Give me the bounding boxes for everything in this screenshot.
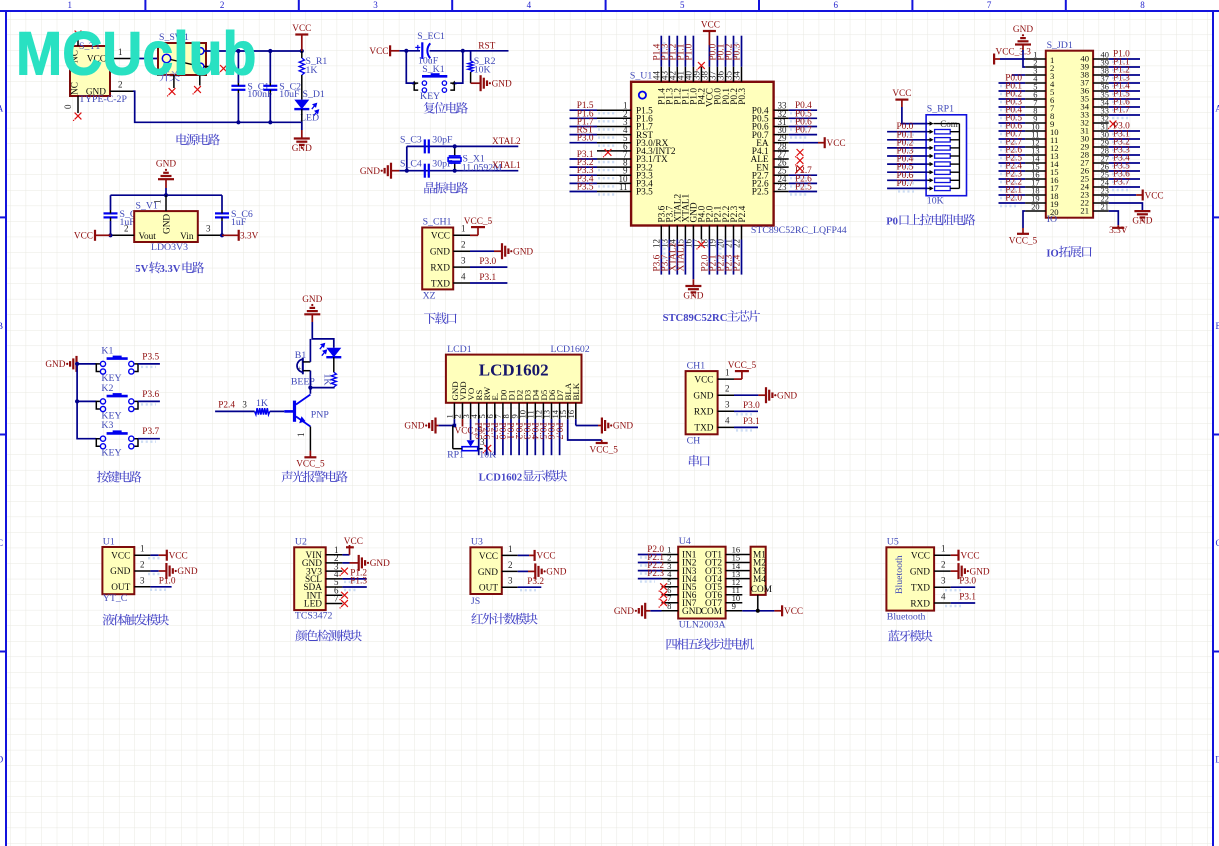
svg-text:K2: K2 — [101, 383, 113, 394]
title IO拓展口 — [1046, 246, 1091, 260]
wire P1.0 — [150, 586, 171, 588]
svg-text:P2.5: P2.5 — [752, 188, 769, 198]
no-ERC pin 17 — [696, 241, 705, 249]
svg-text:VCC: VCC — [111, 551, 130, 561]
wire P2.0 (U4) — [638, 554, 662, 556]
svg-text:3.3V: 3.3V — [160, 264, 181, 275]
svg-text:LCD1602: LCD1602 — [551, 344, 590, 355]
svg-text:COM: COM — [701, 607, 722, 617]
svg-text:VCC: VCC — [292, 24, 311, 34]
svg-text:3: 3 — [206, 224, 211, 234]
svg-text:3: 3 — [941, 576, 946, 586]
svg-text:VCC: VCC — [701, 21, 720, 31]
pin 3 RXD — [453, 255, 470, 267]
capacitor S_C6 1uF — [215, 209, 253, 228]
svg-text:P0.7: P0.7 — [795, 126, 812, 136]
pin 3 TXD (U5) — [934, 576, 951, 588]
svg-text:M4: M4 — [753, 575, 766, 585]
LCD pins — [454, 403, 575, 419]
svg-text:TCS3472: TCS3472 — [295, 611, 333, 622]
LED S_D1 — [294, 89, 325, 124]
wire VIN to VCC — [342, 554, 349, 556]
power port VCC (U4) — [774, 605, 803, 617]
power port VCC_3.3 (row1) — [994, 48, 1031, 65]
svg-text:3.3V: 3.3V — [1109, 226, 1128, 236]
svg-text:KEY: KEY — [101, 448, 121, 459]
pin 31 of S_U1 — [774, 126, 789, 128]
svg-text:10K: 10K — [474, 64, 491, 75]
svg-text:P3.0: P3.0 — [577, 134, 594, 144]
wire P3.4 — [1109, 162, 1140, 164]
bottom rail wire GND pin 2 net — [133, 91, 302, 130]
wire P2.2 — [999, 186, 1026, 188]
svg-text:1K: 1K — [322, 374, 333, 386]
power port VCC (chip top) — [701, 21, 720, 46]
svg-text:B1: B1 — [295, 350, 307, 361]
module U3 JS (IR counter) — [470, 537, 501, 608]
wire P3.0 (serial) — [734, 410, 758, 412]
wire P0.3 to S_RP1 — [887, 155, 928, 157]
svg-text:GND: GND — [613, 422, 633, 432]
svg-text:P3.1: P3.1 — [959, 592, 976, 602]
module U2 TCS3472 (color sensor) — [294, 537, 332, 622]
wire + power port VCC (U1) — [150, 550, 187, 562]
svg-text:GND: GND — [110, 567, 130, 577]
wire P0.0 (LCD) — [502, 419, 504, 455]
title 电源电路 — [177, 134, 220, 146]
svg-text:VCC_5: VCC_5 — [1009, 236, 1038, 246]
switch lower pins with no-ERC — [174, 75, 200, 88]
svg-text:3: 3 — [140, 575, 145, 585]
connector M1-M4 (stepper motor) — [751, 547, 772, 595]
svg-text:GND: GND — [302, 295, 322, 305]
wire — [789, 109, 817, 111]
wire S_C5 to VCC rail — [110, 221, 112, 235]
wire key K3 to P3.7 — [138, 438, 160, 440]
wire P0.4 — [999, 114, 1026, 116]
wire S_D1 to GND — [301, 109, 303, 130]
wire — [660, 240, 662, 275]
ground GND (U5) — [959, 563, 990, 579]
svg-text:1: 1 — [508, 544, 513, 554]
pin 18 of S_U1 — [708, 226, 710, 240]
wire — [684, 36, 686, 67]
wire — [733, 36, 735, 67]
wire P0.3 — [999, 106, 1026, 108]
no-ERC IN6 — [659, 591, 668, 600]
power port VCC (top of power circuit) — [292, 24, 311, 51]
power port VCC_5 (serial) — [728, 361, 757, 379]
wire pin22 to GND — [1109, 203, 1143, 210]
wire — [570, 142, 598, 144]
microcontroller S_U1 STC89C52RC_LQFP44 — [630, 71, 847, 237]
net VCC_5 on VDD pin — [455, 419, 484, 436]
svg-text:2: 2 — [220, 0, 225, 10]
svg-text:P1.7: P1.7 — [1113, 106, 1130, 116]
svg-text:COM: COM — [751, 585, 772, 595]
wire P1.0 — [1109, 58, 1140, 60]
svg-text:XTAL1: XTAL1 — [492, 161, 521, 171]
svg-text:S_C3: S_C3 — [400, 134, 422, 145]
svg-text:GND: GND — [683, 292, 703, 302]
wire key to RST node — [454, 51, 463, 83]
resistor pack S_RP1 10K — [926, 104, 966, 207]
wire P0.6 to S_RP1 — [887, 179, 928, 181]
svg-text:S_C4: S_C4 — [400, 159, 422, 170]
wire motor COM down — [757, 595, 759, 611]
wire — [789, 191, 817, 193]
wire P3.3 — [1109, 154, 1140, 156]
wire — [684, 240, 686, 275]
pin 11 of S_U1 — [597, 191, 631, 193]
driver U4 ULN2003A — [678, 536, 725, 631]
wire P0.1 — [999, 90, 1026, 92]
svg-text:U5: U5 — [887, 537, 899, 548]
wire — [733, 240, 735, 275]
svg-text:GND: GND — [777, 391, 797, 401]
svg-text:XZ: XZ — [423, 291, 436, 302]
svg-text:P3.7: P3.7 — [1113, 178, 1130, 188]
pin 14 of S_U1 — [676, 226, 678, 240]
pin 3 RXD (CH1) — [718, 400, 734, 412]
svg-text:STC89C52RC: STC89C52RC — [663, 313, 728, 324]
pin 1 VCC of S_T1 — [110, 47, 133, 59]
svg-text:8: 8 — [1140, 0, 1145, 10]
pin 22 of S_U1 — [741, 226, 743, 240]
svg-text:GND: GND — [360, 167, 380, 177]
capacitor S_C2 10uF — [263, 82, 301, 101]
pin 9 of S_U1 — [597, 174, 631, 176]
svg-text:Bluetooth: Bluetooth — [894, 555, 905, 594]
pin 13 of S_U1 — [668, 226, 670, 240]
module U5 Bluetooth — [886, 537, 934, 623]
svg-text:RST: RST — [478, 41, 495, 51]
S_JD1 inside pin numbers — [1050, 54, 1090, 218]
wire pin21 to 3.3V — [1109, 211, 1119, 225]
pin 4 RXD (U5) — [934, 591, 951, 603]
wire XTAL1 row — [399, 170, 518, 172]
U4 right pins — [726, 555, 751, 611]
wire cap to RST node — [430, 50, 509, 52]
svg-text:VCC_3.3: VCC_3.3 — [996, 48, 1032, 58]
pin 2 of S_U1 — [597, 117, 631, 119]
wire P2.4 to base resistor — [215, 410, 255, 412]
S_JD1 right pins — [1093, 59, 1109, 211]
wire — [789, 174, 817, 176]
wire P3.1 (U5) — [951, 602, 976, 604]
wire switch to VCC node — [204, 50, 302, 52]
svg-text:P3.0: P3.0 — [959, 577, 976, 587]
pin 8 of S_U1 — [597, 166, 631, 168]
wire P0.4 to S_RP1 — [887, 163, 928, 165]
svg-text:GND: GND — [492, 79, 512, 89]
svg-text:GND: GND — [163, 214, 173, 234]
wire P0.1 to S_RP1 — [887, 139, 928, 141]
transistor Q1 PNP — [295, 395, 330, 427]
svg-text:U1: U1 — [103, 536, 115, 547]
wire P2.3 (U4) — [638, 578, 662, 580]
wire P0.5 — [999, 122, 1026, 124]
svg-text:VCC: VCC — [537, 552, 556, 562]
wire P3.2 — [1109, 146, 1140, 148]
svg-text:YT_C: YT_C — [103, 593, 128, 604]
no-ERC IN7 — [659, 599, 668, 608]
svg-text:2: 2 — [725, 384, 730, 394]
title 复位电路 — [424, 102, 468, 114]
wire VCC node down to key — [406, 51, 414, 83]
svg-text:P3.5: P3.5 — [142, 352, 159, 362]
wire GND rail to pot — [439, 425, 455, 427]
pin 2 Vout of S_V1 — [111, 224, 135, 236]
wire — [716, 240, 718, 275]
pin 2 GND — [453, 240, 470, 252]
svg-text:GND: GND — [156, 160, 176, 170]
chip top pin names (rotated) — [658, 88, 748, 107]
wire rail down to S_C5 — [110, 195, 112, 210]
wire — [570, 174, 598, 176]
pin 3 Vin of S_V1 — [198, 224, 222, 236]
svg-text:1: 1 — [296, 433, 306, 438]
no-ERC IN5 — [659, 583, 668, 592]
ground GND (LDO circuit, above) — [156, 160, 176, 188]
svg-text:TXD: TXD — [694, 424, 713, 434]
wire COM rail to VCC — [742, 610, 774, 612]
pin 1 VCC (U3) — [502, 544, 518, 556]
wire P0.7 — [999, 138, 1026, 140]
svg-text:GND: GND — [513, 247, 533, 257]
svg-text:P2.4: P2.4 — [738, 205, 748, 222]
wire BLK to GND — [575, 419, 577, 425]
pin 1 GND of S_V1 — [153, 195, 167, 211]
svg-text:P0.7: P0.7 — [553, 423, 563, 440]
pin 25 of S_U1 — [774, 174, 789, 176]
svg-text:LDO3V3: LDO3V3 — [151, 242, 188, 253]
key K1 — [96, 345, 138, 384]
svg-text:S_RP1: S_RP1 — [927, 104, 954, 115]
svg-text:GND: GND — [682, 607, 702, 617]
svg-text:GND: GND — [404, 422, 424, 432]
wire P2.6 — [999, 154, 1026, 156]
svg-text:RXD: RXD — [430, 263, 450, 273]
wire P0.4 (LCD) — [534, 419, 536, 455]
pin 20 of S_U1 — [725, 226, 727, 240]
wire P0.2 — [999, 98, 1026, 100]
svg-text:VCC: VCC — [784, 607, 803, 617]
pin 1 VCC — [453, 224, 470, 236]
pin 42 of S_U1 — [676, 67, 678, 82]
svg-text:20: 20 — [1031, 203, 1039, 212]
svg-text:1: 1 — [153, 200, 163, 205]
pin 26 of S_U1 — [774, 166, 789, 168]
svg-text:4: 4 — [725, 416, 730, 426]
svg-text:PNP: PNP — [311, 410, 330, 421]
resistor S_R2 10K — [468, 56, 496, 76]
svg-text:IO: IO — [1046, 248, 1058, 259]
svg-text:VCC: VCC — [479, 552, 498, 562]
wire VCC to Com pin — [902, 107, 928, 124]
power port 3.3V (below) — [1109, 225, 1128, 236]
wire rail down to S_C6 — [221, 195, 223, 210]
svg-text:LED: LED — [304, 600, 322, 610]
svg-text:OUT: OUT — [479, 584, 498, 594]
wire emitter to VCC_5 — [296, 427, 310, 451]
wire P2.7 — [999, 146, 1026, 148]
title 串口 — [689, 455, 710, 467]
pin 27 of S_U1 — [774, 158, 789, 160]
wire top rail down to S_C2 — [269, 51, 271, 83]
no-ERC pin 39 — [696, 62, 705, 71]
svg-text:P3.1: P3.1 — [743, 417, 760, 427]
S_JD1 outside pin numbers — [1031, 51, 1109, 212]
wire P2.6 (LCD) — [486, 419, 488, 455]
power port VCC (EA pin) — [818, 137, 846, 149]
wire — [741, 240, 743, 275]
svg-text:A: A — [0, 104, 4, 114]
svg-text:TXD: TXD — [911, 584, 930, 594]
svg-text:P1.3: P1.3 — [350, 577, 367, 587]
svg-text:5: 5 — [680, 0, 685, 10]
wire P2.5 (LCD) — [478, 419, 480, 455]
svg-text:U4: U4 — [679, 536, 691, 547]
svg-text:Vout: Vout — [139, 232, 157, 242]
svg-text:VCC: VCC — [694, 375, 713, 385]
pin 2 GND (CH1) — [718, 384, 734, 396]
chip left pin names — [636, 106, 676, 197]
wire P3.2 — [518, 586, 542, 588]
svg-text:LCD1602: LCD1602 — [479, 361, 549, 380]
capacitor S_EC1 10uF (electrolytic) — [415, 31, 445, 66]
power port VCC (reset) — [369, 45, 399, 57]
wire P2.7 (LCD) — [494, 419, 496, 455]
LCD pin names (rotated) — [450, 381, 581, 400]
wire P1.1 — [1109, 66, 1140, 68]
key S_K1 — [412, 64, 457, 102]
LED (alarm) — [320, 343, 342, 358]
wire P3.1 — [470, 282, 507, 284]
resistor S_R1 1K — [299, 51, 327, 76]
ground GND (U2) — [359, 555, 390, 571]
wire — [741, 36, 743, 67]
svg-text:ULN2003A: ULN2003A — [679, 620, 726, 631]
wire VCC to cap — [399, 50, 420, 52]
ground GND (crystal) — [360, 163, 400, 179]
wire LED to resistor — [333, 357, 335, 372]
wire row2 to GND — [1023, 50, 1025, 67]
wire VCC_3.3 — [1000, 58, 1025, 60]
connector S_JD1 (IO header) — [1046, 40, 1093, 225]
wire — [725, 240, 727, 275]
wire + power port VCC (U3) — [518, 550, 556, 562]
wire P2.1 (U4) — [638, 562, 662, 564]
svg-text:S_JD1: S_JD1 — [1047, 40, 1073, 51]
pin 4 of S_U1 — [597, 134, 631, 136]
svg-text:4: 4 — [941, 591, 946, 601]
svg-text:CH: CH — [687, 436, 701, 447]
wire P3.0 — [470, 266, 507, 268]
wire — [708, 240, 710, 275]
pin 1 of S_U1 — [597, 109, 631, 111]
wire key K2 to P3.6 — [138, 400, 160, 402]
title 声光报警电路 — [282, 471, 348, 483]
svg-text:GND: GND — [1013, 25, 1033, 35]
wire up to XTAL2 row — [406, 146, 408, 170]
pin 21 of S_U1 — [733, 226, 735, 240]
svg-text:P2.5: P2.5 — [795, 183, 812, 193]
svg-text:P0: P0 — [886, 216, 898, 227]
buzzer B1 BEEP — [291, 350, 316, 387]
wire key K1 to P3.5 — [138, 363, 160, 365]
no-ERC pin — [795, 149, 804, 158]
svg-text:RXD: RXD — [910, 599, 930, 609]
svg-text:4: 4 — [461, 271, 466, 281]
pin 43 of S_U1 — [668, 67, 670, 82]
junction at S_C2 top — [268, 49, 272, 53]
resistor 1K (base) — [255, 398, 270, 415]
wire EA to VCC — [789, 142, 818, 144]
svg-text:RXD: RXD — [694, 408, 714, 418]
svg-text:VCC: VCC — [1145, 191, 1164, 201]
wire P3.0 — [1109, 130, 1140, 132]
pin 3 OUT (U1) — [134, 575, 150, 587]
power port VCC_5 (alarm) — [296, 451, 325, 470]
pin 32 of S_U1 — [774, 117, 789, 119]
svg-text:CH1: CH1 — [687, 360, 706, 371]
pin 4 TXD (CH1) — [718, 416, 734, 428]
pin 4 TXD — [453, 271, 470, 283]
U2 pins — [326, 555, 343, 604]
wire GND (U2) — [342, 562, 349, 564]
no-ERC pin 6 — [603, 149, 612, 158]
svg-text:VCC: VCC — [344, 537, 363, 547]
wire P2.5 — [999, 162, 1026, 164]
wire — [570, 117, 598, 119]
svg-text:VCC: VCC — [961, 552, 980, 562]
wire P2.3 — [999, 178, 1026, 180]
title LCD1602显示模块 — [479, 470, 568, 484]
svg-text:VCC_5: VCC_5 — [296, 460, 325, 470]
wire — [789, 182, 817, 184]
svg-text:JS: JS — [471, 596, 480, 607]
svg-text:P3.0: P3.0 — [479, 257, 496, 267]
svg-text:OUT: OUT — [111, 583, 130, 593]
svg-text:GND: GND — [693, 391, 713, 401]
svg-text:P3.0: P3.0 — [743, 401, 760, 411]
svg-text:VCC_5: VCC_5 — [464, 217, 493, 227]
svg-text:VCC: VCC — [827, 139, 846, 149]
wire S_C6 down — [221, 221, 223, 235]
ground GND (serial) — [766, 387, 797, 403]
wire — [676, 240, 678, 275]
svg-text:0: 0 — [63, 104, 73, 109]
pin 7 of S_U1 — [597, 158, 631, 160]
svg-text:2: 2 — [140, 560, 145, 570]
pin 3 OUT (U3) — [502, 576, 518, 588]
wire buzzer bottom junction — [309, 371, 311, 394]
pin 5 of S_U1 — [597, 142, 631, 144]
wire P3.6 — [1109, 178, 1140, 180]
wire P0.6 (LCD) — [551, 419, 553, 455]
wire — [668, 36, 670, 67]
wire top rail down to S_C1 — [237, 51, 239, 83]
svg-text:P2.0: P2.0 — [1005, 194, 1022, 204]
wire P1.5 — [1109, 98, 1140, 100]
wire row20 to VCC_5 — [1023, 211, 1025, 228]
power port VCC (U2) — [344, 537, 363, 555]
svg-text:Vin: Vin — [180, 232, 194, 242]
wire XTAL2 row — [407, 145, 519, 147]
pin 44 of S_U1 — [660, 67, 662, 82]
wire — [789, 134, 817, 136]
